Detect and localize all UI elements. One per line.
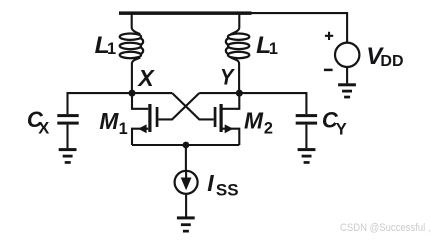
node X junction dot: [129, 90, 136, 97]
label CY: [322, 108, 347, 139]
wire node Y to cross-coupling: [199, 92, 239, 94]
svg-text:M: M: [244, 107, 264, 133]
current source ISS arrow: [181, 172, 192, 191]
svg-text:1: 1: [107, 40, 116, 58]
label M2: [244, 107, 273, 137]
wire node Y to drain of M2: [222, 93, 239, 109]
source wire of M1: [132, 129, 148, 145]
capacitor CX plates: [57, 114, 78, 125]
current source ISS circle: [175, 171, 198, 194]
voltage source VDD circle: [335, 43, 359, 67]
wire node X to cross-coupling: [132, 92, 172, 94]
svg-text:Y: Y: [220, 65, 235, 90]
ground of CY: [298, 148, 316, 164]
wire top rail to VDD source: [251, 13, 348, 42]
label L1 left: [95, 32, 116, 59]
VDD plus sign: [325, 32, 333, 40]
svg-text:M: M: [99, 108, 119, 134]
wire gate of M2 from node X (diagonal): [172, 93, 214, 119]
svg-text:2: 2: [264, 120, 273, 138]
source arrow of M1: [138, 124, 147, 133]
svg-text:CSDN @Successful ,: CSDN @Successful ,: [340, 222, 431, 234]
ground of VDD: [338, 83, 356, 98]
wire node X to drain of M1: [132, 93, 148, 109]
bottom tail rail wire: [132, 144, 239, 146]
label L1 right: [256, 32, 278, 59]
svg-text:I: I: [207, 170, 214, 196]
label CX: [27, 107, 49, 138]
wire rail to L1 right: [231, 14, 240, 34]
ground of CX: [59, 148, 77, 164]
transistor M2 gate bar: [214, 107, 217, 127]
transistor M2 channel bar: [220, 104, 223, 132]
wire CX to ground: [66, 125, 68, 149]
svg-text:1: 1: [119, 120, 128, 138]
wire CY to ground: [305, 125, 307, 149]
wire rail to L1 left: [132, 14, 141, 34]
inductor L1 left: [120, 34, 143, 59]
top supply rail: [119, 11, 252, 15]
wire node X to capacitor CX: [68, 93, 133, 114]
wire ISS to ground: [185, 194, 187, 216]
tail junction dot: [183, 142, 190, 149]
transistor M1 channel bar: [148, 104, 151, 132]
wire VDD to ground: [346, 68, 348, 84]
wire gate of M1 from node Y (diagonal): [158, 93, 199, 119]
svg-text:1: 1: [269, 40, 278, 58]
capacitor CY plates: [296, 114, 317, 125]
VDD minus sign: [324, 69, 333, 72]
svg-text:SS: SS: [216, 181, 239, 200]
inductor L1 right: [226, 34, 249, 59]
label ISS: [207, 170, 238, 200]
wire tail to current source ISS: [185, 145, 187, 170]
svg-text:Y: Y: [336, 121, 347, 139]
label M1: [99, 108, 127, 138]
svg-text:X: X: [136, 65, 155, 91]
wire L1 right to node Y: [231, 58, 239, 94]
svg-text:DD: DD: [380, 53, 403, 70]
ground of ISS: [177, 216, 195, 232]
transistor M1 gate bar: [156, 107, 159, 127]
svg-text:X: X: [38, 120, 49, 138]
node Y junction dot: [236, 90, 243, 97]
wire L1 left to node X: [132, 58, 140, 94]
label VDD: [366, 43, 403, 70]
source arrow of M2: [225, 124, 234, 133]
wire node Y to capacitor CY: [239, 93, 306, 114]
source wire of M2: [222, 129, 239, 145]
